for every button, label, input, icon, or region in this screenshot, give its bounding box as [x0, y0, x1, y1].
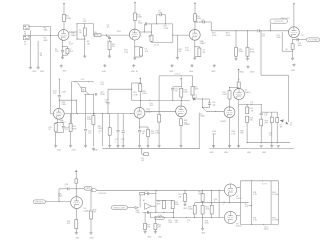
svg-text:R58220K: R58220K — [204, 220, 209, 224]
wire R37 top — [229, 88, 231, 91]
junction V2A cathode — [194, 46, 195, 47]
big box top edge — [159, 75, 192, 77]
svg-text:R101M: R101M — [112, 44, 115, 48]
input jack J1 body — [24, 25, 30, 30]
svg-text:R61470K: R61470K — [168, 220, 173, 224]
wire string R60 top — [154, 218, 156, 224]
wire R21 to ground — [247, 56, 249, 57]
resistor R53 — [193, 205, 196, 214]
ground top mid 6 — [213, 64, 216, 67]
loop left down — [172, 91, 174, 101]
wire cathode bottom bar — [63, 54, 68, 56]
wire R50 to C31 — [145, 193, 148, 195]
wire P1 to node — [196, 98, 202, 100]
svg-text:R5182K: R5182K — [157, 201, 161, 205]
junction lower wire e — [186, 217, 187, 218]
wire R48 to ground — [90, 219, 92, 232]
svg-text:R23100K: R23100K — [298, 43, 303, 47]
junction bottom rail d — [181, 100, 182, 101]
wire plate node right — [195, 21, 203, 23]
svg-text:R5656K: R5656K — [240, 130, 244, 134]
wire V1B plate out — [140, 31, 151, 33]
wire R9 to grid node — [93, 34, 96, 36]
wire x219 vertical — [218, 190, 220, 217]
junction lower link a — [261, 142, 262, 143]
wire jack2 sleeve down — [37, 41, 39, 67]
svg-text:B+470: B+470 — [245, 204, 248, 208]
svg-text:C31: C31 — [145, 191, 148, 193]
wire R6 bottom join — [66, 54, 68, 55]
ground tick V3B — [138, 145, 141, 147]
resistor R41 — [246, 107, 249, 114]
wire string C21 down — [117, 114, 119, 130]
wire plate node right — [59, 99, 76, 101]
wire V8 plate — [237, 215, 241, 217]
wire netbox6 stub — [76, 188, 84, 190]
svg-text:R26470K: R26470K — [72, 126, 77, 130]
junction bottom rail c — [172, 100, 173, 101]
wire supply to R4 — [63, 6, 65, 15]
flag FROM OT symbol — [155, 216, 165, 219]
svg-text:INLO: INLO — [24, 42, 27, 46]
net label box (TO TONE) — [306, 38, 320, 42]
wire node to R52a — [156, 200, 164, 202]
wire R56 bot — [211, 214, 213, 218]
resistor R40 plate V5 — [237, 82, 240, 88]
wire L down — [149, 212, 151, 217]
wire C6 to network — [147, 23, 152, 25]
svg-text:B+: B+ — [136, 71, 138, 73]
ground tick x271 — [270, 145, 273, 147]
wire network left edge upper — [151, 24, 153, 35]
ground jack sleeve 1 — [29, 66, 32, 69]
long wire input feed down — [50, 36, 52, 114]
wire cathode branch — [140, 126, 149, 128]
wire network right edge — [172, 24, 174, 43]
wire switch to V4B grid — [206, 110, 224, 112]
ground top mid 1 — [103, 64, 106, 67]
capacitor C31 — [147, 192, 148, 195]
svg-text:R81M: R81M — [87, 41, 90, 45]
wire cathode to C5 — [135, 46, 141, 48]
junction V3A cathode bottom — [55, 132, 56, 133]
resistor R20 — [235, 47, 238, 56]
svg-text:PRI1.7K: PRI1.7K — [253, 217, 258, 221]
junction long wire a — [156, 190, 157, 191]
wire C13 to plate node — [58, 98, 60, 109]
svg-text:GND: GND — [169, 71, 174, 73]
junction big box top — [181, 75, 182, 76]
svg-text:R4210K: R4210K — [249, 117, 253, 121]
wire string x102 down — [102, 114, 104, 147]
wire PI feed down — [75, 100, 77, 113]
svg-text:C20.68: C20.68 — [142, 131, 145, 135]
ground tick x238 — [237, 145, 240, 147]
wire P2 stub — [276, 112, 278, 118]
ground V1B cathode — [133, 57, 136, 60]
junction V1B cathode — [134, 46, 135, 47]
svg-text:C18.02: C18.02 — [105, 100, 108, 104]
B+ supply arrow gain box — [180, 78, 182, 81]
ground R59 — [144, 230, 147, 233]
ground top mid 3 — [60, 64, 63, 67]
resistor R45b grid stopper — [75, 179, 78, 183]
junction on grid wire 4 — [130, 113, 131, 114]
svg-text:C22.1: C22.1 — [121, 139, 124, 143]
wire A1 out — [151, 205, 156, 207]
resistor R32 below bus — [144, 153, 149, 156]
junction string R21 — [247, 30, 248, 31]
resistor R57 — [184, 194, 187, 202]
wire V4A cathode — [180, 117, 182, 119]
svg-text:R22220K: R22220K — [276, 35, 281, 39]
net label box (NFB) — [84, 186, 92, 190]
wire supply to V2B plate — [293, 6, 295, 27]
wire R34 to P1 — [192, 96, 194, 99]
junction grid V4A — [159, 111, 160, 112]
svg-text:C8 .02: C8 .02 — [154, 44, 159, 46]
resistor R54 — [201, 194, 204, 202]
svg-text:GND: GND — [62, 71, 67, 73]
junction R42 bottom — [247, 142, 248, 143]
svg-text:C9.68: C9.68 — [202, 50, 206, 54]
capacitor C9 cathode bypass — [198, 48, 201, 56]
wire R29 down — [147, 137, 149, 146]
wire V5 cathode rail — [239, 103, 262, 105]
svg-text:R168K: R168K — [44, 27, 48, 31]
wire cathode bottom bar — [195, 55, 200, 57]
svg-text:R21470K: R21470K — [250, 49, 255, 53]
wire cap loop left stub — [156, 15, 158, 24]
resistor R29 — [147, 129, 150, 136]
wire cluster bottom — [84, 93, 93, 95]
wire R26 to ground — [70, 132, 72, 145]
svg-text:V3B12AX7: V3B12AX7 — [146, 109, 153, 113]
wire route down — [260, 31, 262, 75]
resistor R34 right edge — [191, 87, 194, 96]
transformer T1 left rail — [239, 181, 241, 225]
flag pointer to power amp — [92, 189, 97, 192]
net label box (TO LOOP) — [270, 19, 288, 23]
triode V2B symbol — [289, 27, 300, 38]
switch S2 lever — [203, 108, 207, 112]
mixer triangle A1 — [145, 203, 152, 210]
resistor R7 1M — [83, 28, 86, 36]
wire cathode to C9 — [195, 46, 200, 48]
svg-text:GND: GND — [158, 237, 163, 239]
svg-text:C161uF: C161uF — [88, 131, 92, 135]
svg-text:(FROM T): (FROM T) — [35, 201, 43, 203]
capacitor C26 — [208, 103, 211, 104]
svg-text:GND: GND — [262, 152, 267, 154]
transformer T1 bottom edge — [240, 223, 278, 225]
junction V7 cathode — [229, 202, 230, 203]
lower long wire — [150, 217, 224, 219]
triode V5 symbol — [234, 89, 245, 100]
svg-text:C26.022: C26.022 — [212, 102, 216, 106]
wire R11 to V1B plate — [134, 20, 136, 29]
junction lower wire b — [202, 217, 203, 218]
resistor R50 — [140, 192, 145, 195]
svg-text:(NFB): (NFB) — [86, 188, 91, 190]
wire netbox3 out — [128, 207, 135, 209]
ground V3A cathode — [54, 144, 57, 147]
loop S2 bottom — [203, 107, 210, 109]
long wire bottom row — [97, 189, 224, 191]
svg-text:R71M: R71M — [79, 30, 82, 34]
svg-text:C12: C12 — [301, 35, 304, 37]
wire R28 down — [139, 92, 141, 101]
ground tick R35 — [158, 145, 161, 147]
wire cap loop right stub — [164, 15, 166, 24]
wire R35 to bus — [158, 122, 160, 146]
resistor R13 on left edge — [150, 35, 153, 41]
svg-text:1M: 1M — [285, 49, 288, 51]
junction loop top mid — [84, 23, 85, 24]
junction lower mix b — [163, 212, 164, 213]
ground R48 — [89, 231, 92, 234]
resistor R43 — [260, 119, 263, 126]
svg-text:V512AX7: V512AX7 — [245, 90, 252, 94]
svg-text:V1A12AX7: V1A12AX7 — [71, 32, 78, 37]
junction cluster top a — [88, 81, 89, 82]
svg-text:C3.022: C3.022 — [83, 19, 87, 23]
svg-text:(FROM LOOP): (FROM LOOP) — [114, 207, 126, 209]
svg-text:R35100K: R35100K — [155, 131, 160, 135]
junction plate feed top — [59, 79, 60, 80]
coupling loop R7 bot — [84, 36, 86, 39]
pentode V7 symbol — [224, 184, 236, 196]
ground tick C21 — [116, 145, 119, 147]
loop S2 top — [203, 98, 210, 100]
wire R55 bot — [202, 214, 204, 218]
wire mid rail bottom — [195, 202, 249, 204]
big box right edge top — [192, 76, 194, 87]
ground C16 — [84, 145, 87, 148]
wire R59 bot — [144, 230, 146, 231]
wire C30 to node — [69, 188, 76, 190]
junction T1 centertap — [251, 205, 252, 206]
ground tick R39 — [212, 145, 215, 147]
wire C30 rail — [59, 188, 67, 190]
svg-text:C36.1: C36.1 — [223, 202, 226, 206]
resistor R23 cathode follower — [291, 44, 294, 50]
capacitor C10 coupling — [203, 21, 204, 24]
wire cathode bottom bar — [56, 132, 64, 134]
wire string x70 down — [70, 114, 72, 124]
junction V1A cathode — [62, 46, 63, 47]
ground V2B cathode — [291, 57, 294, 60]
junction cap loop right — [165, 23, 166, 24]
wire R23 to ground — [292, 49, 294, 57]
svg-text:C24 .02: C24 .02 — [175, 74, 181, 76]
ground V1A cathode — [61, 56, 64, 59]
wire string R54 top — [202, 190, 204, 193]
junction network out — [172, 35, 173, 36]
junction lower link b — [277, 142, 278, 143]
junction supply V5 — [238, 79, 239, 80]
wire string x261 down — [260, 104, 262, 112]
net label box (FROM LOOP) — [111, 206, 127, 210]
junction lower wire a — [194, 217, 195, 218]
junction mid rail bottom b — [211, 202, 212, 203]
wire grid leak left — [281, 32, 283, 51]
wire cluster left down — [71, 82, 73, 124]
ground bus right segment — [210, 147, 295, 149]
wire C4 down — [109, 40, 111, 42]
ground grid leak V2A — [176, 56, 179, 59]
junction long wire c — [202, 190, 203, 191]
resistor R4 100K plate V1A — [63, 14, 66, 21]
capacitor C28 — [260, 113, 263, 114]
wire V1A plate out — [69, 31, 77, 33]
wire T1 centertap stub — [249, 205, 252, 207]
wire R31 to bus — [109, 135, 111, 146]
wire R43 to link — [260, 126, 262, 143]
wire V5 cathode down — [238, 100, 240, 105]
wire C20 down — [139, 133, 141, 146]
stub R25 — [55, 123, 57, 124]
wire cap leg upper — [62, 47, 64, 51]
wire grid leak V2A down — [176, 35, 178, 57]
wire R42 down — [246, 123, 248, 143]
wire cathode to ground — [55, 133, 57, 145]
resistor R44b — [270, 117, 273, 122]
coupling loop right down — [93, 24, 95, 35]
junction supply mid — [140, 82, 141, 83]
svg-text:PRI1.7K: PRI1.7K — [253, 192, 258, 196]
wire node down to grid line — [50, 26, 52, 35]
junction V3A plate node — [59, 100, 60, 101]
wire netbox to grid — [46, 201, 71, 203]
wire C14 down — [62, 129, 64, 133]
resistor R30 — [92, 116, 95, 125]
junction cluster top b — [92, 81, 93, 82]
svg-text:R14270K: R14270K — [164, 26, 169, 30]
resistor R42 — [246, 116, 249, 122]
wire C18 stub — [107, 89, 109, 101]
capacitor C15 small — [96, 93, 97, 95]
connector arrowhead — [135, 207, 138, 209]
junction network left entry — [151, 31, 152, 32]
wire string R56 top — [211, 190, 213, 205]
resistor R56 — [210, 205, 213, 214]
svg-text:R28100K: R28100K — [142, 91, 147, 95]
svg-text:2.2M: 2.2M — [61, 92, 65, 94]
svg-text:R37100K: R37100K — [222, 92, 227, 96]
transformer T1 top edge — [240, 180, 278, 182]
wire network bottom edge — [152, 41, 173, 43]
svg-text:C225uF: C225uF — [69, 42, 74, 46]
svg-text:GND: GND — [183, 208, 188, 210]
capacitor C33 — [147, 211, 148, 214]
wire R47 to ground — [75, 229, 77, 232]
svg-text:SEC8 OHM: SEC8 OHM — [272, 192, 278, 196]
wire C5 bottom join — [140, 56, 142, 57]
svg-text:P11M: P11M — [194, 95, 197, 99]
junction bottom rail b — [149, 100, 150, 101]
stub C14 — [62, 123, 64, 126]
svg-text:C17.022: C17.022 — [100, 82, 104, 86]
svg-text:GND2: GND2 — [250, 71, 255, 73]
wire V6 plate up — [75, 189, 77, 197]
ground tick x261 — [260, 145, 263, 147]
junction V2A plate node — [194, 21, 195, 22]
wire below bus down — [141, 148, 143, 154]
wire string R30 down — [92, 94, 94, 115]
wire cluster top — [72, 81, 94, 83]
svg-text:GND: GND — [224, 152, 229, 154]
svg-text:R251K: R251K — [48, 127, 51, 131]
junction node A plate V1A — [76, 31, 77, 32]
wire C22 to bus — [122, 133, 124, 146]
wire route down right — [287, 75, 289, 122]
V3B box top edge — [132, 82, 141, 84]
svg-text:GND: GND — [147, 237, 152, 239]
B+ supply arrow V1A — [63, 3, 65, 6]
wire network left edge lower — [151, 41, 153, 42]
svg-text:INHI: INHI — [24, 31, 27, 35]
svg-text:C21.1: C21.1 — [115, 139, 118, 143]
svg-text:R381.5K: R381.5K — [231, 131, 236, 135]
wire V6 cathode down — [75, 208, 77, 220]
capacitor C18 — [107, 103, 110, 104]
junction mid rail bottom a — [202, 202, 203, 203]
ground tick V4B — [228, 145, 231, 147]
junction cluster bottom b — [93, 94, 94, 95]
wire rail to V3B plate — [139, 100, 141, 107]
long wire channel B cont — [259, 30, 288, 32]
svg-text:R30220K: R30220K — [87, 117, 92, 121]
svg-text:V86L6GC: V86L6GC — [236, 223, 242, 227]
wire R4 to V1A plate — [63, 22, 65, 30]
svg-text:R34100K: R34100K — [194, 87, 199, 91]
svg-text:R61.5K: R61.5K — [55, 49, 59, 53]
wire cathode down2 — [194, 47, 196, 57]
svg-text:R27470K: R27470K — [100, 92, 105, 96]
wire right branch down — [173, 209, 175, 218]
resistor R55 — [201, 205, 204, 214]
svg-text:R11100K: R11100K — [137, 14, 143, 18]
junction cluster bottom a — [88, 94, 89, 95]
wire cathode to netbox — [293, 39, 307, 41]
junction on grid wire 3 — [107, 113, 108, 114]
svg-text:1M: 1M — [82, 89, 85, 91]
transformer T1 right edge — [277, 181, 279, 225]
capacitor C13 decouple — [58, 96, 61, 97]
svg-text:R268K: R268K — [44, 37, 48, 41]
svg-text:C15: C15 — [81, 79, 84, 81]
svg-text:V2B 12AX7: V2B 12AX7 — [280, 17, 289, 20]
wire V3A cathode down — [57, 119, 59, 122]
resistor R6 1.5K cathode — [66, 49, 69, 54]
junction R48 top — [90, 190, 91, 191]
loop S2 left — [202, 99, 204, 108]
wire cluster diagonal 2 — [86, 91, 89, 94]
svg-text:R18470K: R18470K — [212, 33, 217, 37]
svg-text:GND: GND — [247, 152, 252, 154]
junction below bus — [141, 148, 142, 149]
wire cap loop top left — [157, 14, 160, 16]
wire cathode down2 — [134, 47, 136, 57]
junction V3B cathode — [139, 126, 140, 127]
wire lower link across — [247, 142, 290, 144]
svg-text:R5947K: R5947K — [147, 225, 151, 229]
resistor R16 100K plate V2A — [194, 14, 197, 21]
ground R7 bottom — [83, 55, 86, 58]
coupling loop top — [77, 23, 94, 25]
wire network to V2A grid — [173, 34, 190, 36]
